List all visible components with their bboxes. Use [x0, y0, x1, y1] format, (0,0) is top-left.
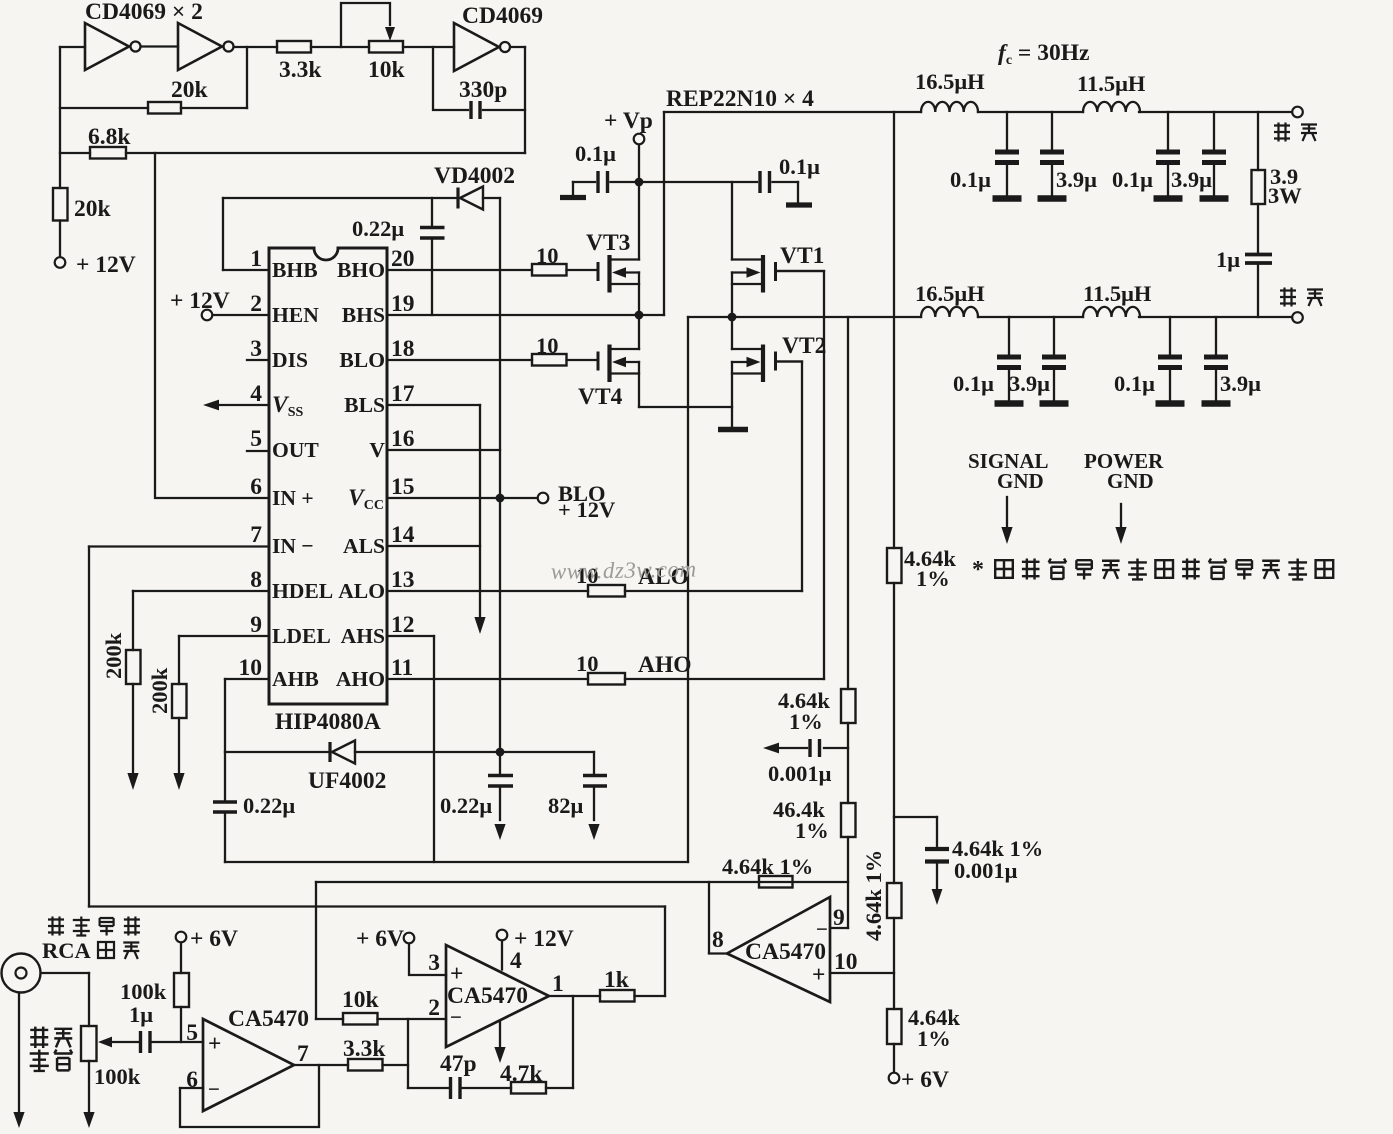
svg-text:4.64k 1%: 4.64k 1% — [861, 850, 886, 941]
svg-text:3.9μ: 3.9μ — [1056, 167, 1097, 192]
svg-text:330p: 330p — [459, 77, 507, 103]
svg-text:3W: 3W — [1268, 183, 1302, 208]
svg-text:3: 3 — [428, 950, 440, 976]
svg-text:8: 8 — [712, 927, 724, 953]
svg-text:GND: GND — [1107, 469, 1154, 493]
svg-text:2: 2 — [428, 995, 440, 1021]
svg-text:10: 10 — [536, 333, 559, 358]
svg-text:17: 17 — [391, 381, 415, 407]
svg-text:ALO: ALO — [338, 579, 385, 603]
svg-text:1: 1 — [250, 246, 262, 272]
svg-text:VD4002: VD4002 — [434, 163, 515, 189]
svg-text:BHS: BHS — [342, 303, 385, 327]
svg-text:0.22μ: 0.22μ — [440, 793, 492, 818]
svg-text:VT1: VT1 — [780, 243, 824, 269]
svg-text:+ 12V: + 12V — [76, 252, 136, 278]
svg-text:4.7k: 4.7k — [500, 1061, 543, 1087]
svg-text:VT2: VT2 — [782, 333, 826, 359]
svg-text:HDEL: HDEL — [272, 579, 333, 603]
svg-text:+: + — [812, 962, 825, 988]
svg-text:3.9μ: 3.9μ — [1220, 371, 1261, 396]
svg-text:0.1μ: 0.1μ — [1112, 167, 1153, 192]
svg-text:BHO: BHO — [337, 258, 385, 282]
svg-text:−: − — [816, 917, 828, 941]
svg-text:13: 13 — [391, 567, 415, 593]
svg-text:V: V — [369, 438, 385, 462]
svg-text:5: 5 — [250, 426, 262, 452]
svg-text:RCA: RCA — [42, 938, 91, 963]
svg-text:6: 6 — [250, 474, 262, 500]
svg-text:4: 4 — [250, 381, 262, 407]
svg-text:CD4069 × 2: CD4069 × 2 — [85, 0, 203, 25]
svg-text:10: 10 — [536, 243, 559, 268]
svg-text:1: 1 — [552, 971, 564, 997]
svg-text:10: 10 — [239, 655, 263, 681]
svg-text:47p: 47p — [440, 1051, 477, 1077]
svg-text:UF4002: UF4002 — [308, 768, 386, 794]
svg-text:1%: 1% — [789, 709, 823, 734]
svg-text:+: + — [208, 1031, 221, 1057]
svg-text:AHS: AHS — [341, 624, 385, 648]
svg-text:200k: 200k — [147, 667, 172, 714]
svg-text:*: * — [972, 557, 984, 583]
svg-text:+ 6V: + 6V — [190, 926, 238, 952]
svg-text:REP22N10 × 4: REP22N10 × 4 — [666, 86, 814, 112]
svg-text:10k: 10k — [368, 57, 406, 83]
svg-text:6: 6 — [186, 1067, 198, 1093]
svg-text:IN −: IN − — [272, 534, 314, 558]
svg-text:+ 6V: + 6V — [356, 926, 404, 952]
svg-text:100k: 100k — [120, 979, 167, 1004]
svg-text:0.001μ: 0.001μ — [954, 858, 1018, 883]
svg-text:3: 3 — [250, 336, 262, 362]
svg-text:4.64k 1%: 4.64k 1% — [722, 854, 813, 879]
svg-text:0.22μ: 0.22μ — [243, 793, 295, 818]
svg-text:12: 12 — [391, 612, 415, 638]
svg-text:11.5μH: 11.5μH — [1077, 71, 1146, 96]
svg-text:3.3k: 3.3k — [279, 57, 322, 83]
svg-text:3.3k: 3.3k — [343, 1036, 386, 1062]
svg-text:BHB: BHB — [272, 258, 318, 282]
svg-text:−: − — [208, 1077, 220, 1101]
svg-text:20: 20 — [391, 246, 415, 272]
svg-text:10: 10 — [576, 651, 599, 676]
svg-text:0.1μ: 0.1μ — [779, 154, 820, 179]
svg-text:0.001μ: 0.001μ — [768, 761, 832, 786]
svg-text:14: 14 — [391, 522, 415, 548]
svg-text:www.dz3w.com: www.dz3w.com — [551, 556, 697, 584]
svg-text:ALS: ALS — [343, 534, 385, 558]
svg-text:1%: 1% — [916, 566, 950, 591]
svg-text:19: 19 — [391, 291, 415, 317]
svg-text:10k: 10k — [342, 987, 380, 1013]
svg-text:11.5μH: 11.5μH — [1083, 281, 1152, 306]
svg-text:9: 9 — [250, 612, 262, 638]
svg-text:10: 10 — [834, 949, 858, 975]
svg-text:+ 12V: + 12V — [558, 497, 615, 522]
svg-text:HEN: HEN — [272, 303, 319, 327]
svg-text:DIS: DIS — [272, 348, 308, 372]
svg-text:VT3: VT3 — [586, 230, 630, 256]
svg-text:+ Vp: + Vp — [604, 108, 653, 134]
svg-text:IN +: IN + — [272, 486, 314, 510]
svg-text:7: 7 — [297, 1041, 309, 1067]
svg-text:16.5μH: 16.5μH — [915, 281, 985, 306]
svg-text:11: 11 — [391, 655, 413, 681]
svg-text:VT4: VT4 — [578, 384, 623, 410]
svg-text:7: 7 — [250, 522, 262, 548]
svg-text:0.1μ: 0.1μ — [1114, 371, 1155, 396]
svg-text:3.9μ: 3.9μ — [1171, 167, 1212, 192]
svg-text:CD4069: CD4069 — [462, 3, 543, 29]
svg-text:100k: 100k — [94, 1064, 141, 1089]
svg-text:fc = 30Hz: fc = 30Hz — [998, 40, 1089, 68]
svg-text:AHO: AHO — [638, 652, 692, 678]
svg-text:BLO: BLO — [339, 348, 385, 372]
svg-text:3.9μ: 3.9μ — [1009, 371, 1050, 396]
svg-text:5: 5 — [186, 1020, 198, 1046]
svg-text:0.1μ: 0.1μ — [953, 371, 994, 396]
svg-text:1k: 1k — [604, 967, 630, 993]
svg-text:AHO: AHO — [336, 667, 385, 691]
svg-text:BLS: BLS — [344, 393, 385, 417]
svg-text:4: 4 — [510, 948, 522, 974]
svg-text:CA5470: CA5470 — [228, 1006, 309, 1032]
svg-text:HIP4080A: HIP4080A — [275, 709, 381, 735]
svg-text:1μ: 1μ — [129, 1002, 153, 1027]
svg-text:6.8k: 6.8k — [88, 124, 131, 150]
svg-text:200k: 200k — [101, 632, 126, 679]
svg-text:8: 8 — [250, 567, 262, 593]
svg-text:0.1μ: 0.1μ — [950, 167, 991, 192]
svg-text:16.5μH: 16.5μH — [915, 69, 985, 94]
svg-text:1μ: 1μ — [1216, 247, 1240, 272]
svg-text:1%: 1% — [917, 1026, 951, 1051]
svg-text:+ 12V: + 12V — [514, 926, 574, 952]
svg-text:0.1μ: 0.1μ — [575, 141, 616, 166]
svg-text:20k: 20k — [171, 77, 209, 103]
svg-text:GND: GND — [997, 469, 1044, 493]
svg-text:CA5470: CA5470 — [745, 939, 826, 965]
svg-text:20k: 20k — [74, 196, 112, 222]
svg-text:18: 18 — [391, 336, 415, 362]
svg-text:+ 6V: + 6V — [901, 1067, 949, 1093]
svg-text:0.22μ: 0.22μ — [352, 216, 404, 241]
svg-text:LDEL: LDEL — [272, 624, 331, 648]
svg-text:82μ: 82μ — [548, 793, 584, 818]
svg-text:AHB: AHB — [272, 667, 319, 691]
svg-text:−: − — [450, 1005, 462, 1029]
svg-text:+: + — [450, 961, 463, 987]
svg-text:9: 9 — [833, 905, 845, 931]
svg-text:16: 16 — [391, 426, 415, 452]
svg-text:2: 2 — [250, 291, 262, 317]
svg-text:+ 12V: + 12V — [170, 288, 230, 314]
svg-text:OUT: OUT — [272, 438, 319, 462]
svg-text:1%: 1% — [795, 818, 829, 843]
svg-text:15: 15 — [391, 474, 415, 500]
